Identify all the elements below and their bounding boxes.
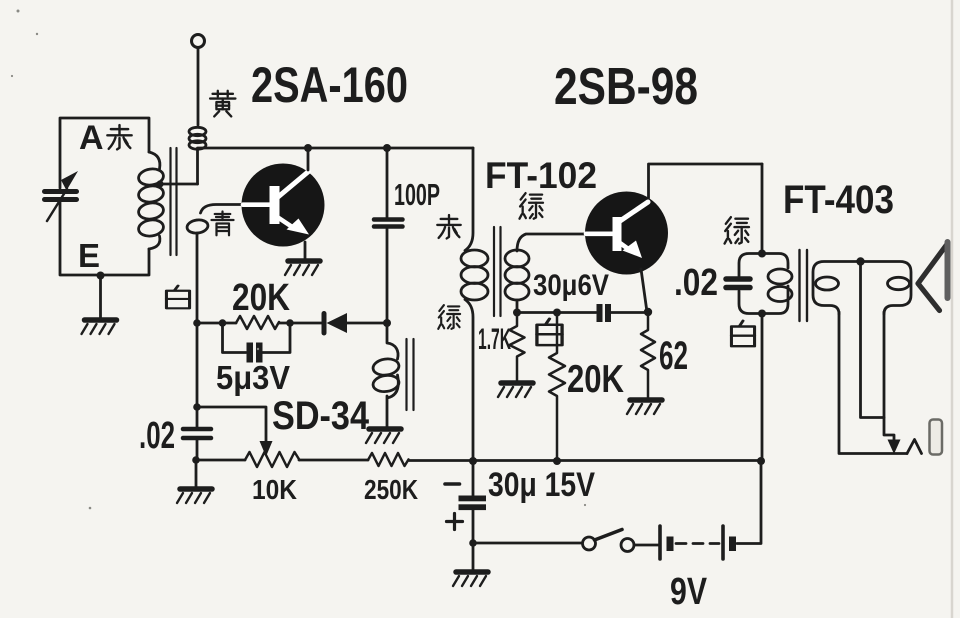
svg-text:2SA-160: 2SA-160: [251, 57, 408, 113]
svg-text:1.7K: 1.7K: [478, 323, 511, 356]
wire FT102 secondary top to base: [517, 234, 585, 251]
paper specks: [11, 10, 586, 510]
resistor 250K: [368, 453, 409, 466]
node wiper: [193, 403, 201, 411]
wire sec right down: [884, 312, 894, 441]
plug body: [930, 420, 943, 455]
svg-text:.02: .02: [139, 415, 175, 457]
wire bus: [196, 459, 245, 462]
resistor 62: [641, 312, 655, 399]
wire top rail: [198, 147, 474, 150]
capacitor 30u15V: [459, 496, 487, 502]
capacitor .02 stage1: [183, 427, 211, 432]
wire 100P bottom: [386, 229, 389, 323]
label kanji red FT102: [437, 215, 460, 238]
svg-text:5μ3V: 5μ3V: [216, 359, 290, 396]
wire Q2 emitter: [641, 269, 647, 312]
wire secondary base coil: [201, 205, 243, 214]
wire bias left: [197, 322, 236, 325]
ground 62: [627, 400, 662, 414]
svg-text:10K: 10K: [252, 474, 297, 505]
core osc: [407, 339, 414, 410]
diode SD-34: [322, 314, 327, 334]
wire Q1 collector: [307, 148, 310, 170]
wire FT403 primary top feed: [761, 164, 764, 254]
antenna terminal: [192, 35, 205, 48]
svg-text:SD-34: SD-34: [272, 394, 370, 438]
label kanji green FT102 primary: [438, 305, 460, 329]
label kanji white FT102: [537, 319, 562, 345]
svg-text:2SB-98: 2SB-98: [554, 58, 698, 116]
svg-text:FT-403: FT-403: [783, 178, 894, 222]
label kanji green FT102 secondary: [519, 193, 542, 219]
wire white down: [196, 233, 199, 323]
switch S1: [583, 537, 596, 550]
wire tap horizontal: [160, 183, 198, 186]
svg-text:A: A: [79, 119, 104, 157]
capacitor 5u3V branch: [223, 323, 247, 353]
earphone: [918, 244, 948, 311]
svg-text:30μ6V: 30μ6V: [533, 269, 609, 302]
coil osc loops: [372, 357, 400, 376]
node FT403 top: [758, 250, 766, 258]
node white/bias: [193, 319, 201, 327]
plus label: [447, 514, 463, 530]
wire FT403 bottom down: [761, 314, 764, 461]
svg-text:62: 62: [659, 334, 688, 378]
wire osc top: [387, 323, 398, 359]
coil secondary blue: [186, 219, 209, 235]
antenna box L1: [60, 118, 149, 188]
battery B1: [658, 526, 662, 559]
node battery left: [469, 539, 477, 547]
plug notch: [907, 440, 922, 454]
winding FT403 primary: [739, 254, 762, 277]
coil yellow-tap choke: [189, 127, 206, 135]
node diode right: [383, 319, 391, 327]
capacitor .02 stage2: [726, 276, 750, 282]
label kanji white stage1: [166, 286, 189, 309]
wire 100P top: [386, 148, 389, 217]
node bus ft102: [469, 457, 477, 465]
ground osc: [366, 429, 401, 443]
node 20k2 top: [553, 309, 561, 317]
variable capacitor VC1: [45, 189, 77, 194]
label kanji red A: [107, 125, 131, 149]
wire osc bottom: [387, 375, 398, 427]
label kanji yellow: [210, 91, 235, 117]
core FT403: [800, 250, 808, 321]
wire box bottom to ground: [99, 275, 102, 318]
core lines L1: [171, 148, 177, 255]
node 100P top: [383, 144, 391, 152]
node 20K right: [286, 319, 294, 327]
wire Q1 emitter: [304, 242, 307, 260]
label kanji white FT403: [731, 321, 754, 346]
wire wiper: [197, 407, 266, 442]
transistor Q1 body: [242, 164, 325, 247]
coil FT102 primary: [461, 250, 488, 267]
winding FT403 secondary: [813, 262, 911, 315]
label kanji green FT403: [725, 217, 749, 243]
ground bus left: [177, 489, 212, 503]
scan artifact right edge: [951, 0, 954, 618]
potentiometer 10K: [245, 452, 300, 467]
ground 1.7K: [498, 383, 533, 397]
arrow to plug: [888, 440, 901, 455]
wire left vertical: [196, 323, 199, 427]
node box bottom: [97, 272, 105, 280]
transistor Q2 body: [585, 192, 668, 275]
node emitter2: [644, 308, 652, 316]
resistor 20K horizontal: [236, 316, 279, 329]
svg-text:FT-102: FT-102: [485, 155, 597, 196]
svg-text:30μ 15V: 30μ 15V: [488, 466, 595, 504]
svg-text:100P: 100P: [394, 177, 440, 212]
wire bias2: [517, 311, 596, 314]
node bus 20k2: [553, 457, 561, 465]
node FT403 bottom: [758, 310, 766, 318]
svg-text:20K: 20K: [232, 277, 290, 319]
wire to ground: [195, 460, 198, 487]
wire FT102 primary top: [465, 148, 473, 251]
ground battery: [453, 572, 488, 586]
svg-text:.02: .02: [674, 262, 718, 304]
ground: [82, 320, 117, 334]
coil L1 loops: [138, 167, 165, 186]
label kanji blue: [212, 212, 234, 236]
wire sec tap down: [861, 262, 885, 418]
node tap dot: [156, 180, 163, 187]
wire Q2 collector: [649, 164, 763, 198]
node bus left: [192, 456, 200, 464]
svg-text:20K: 20K: [567, 358, 624, 401]
wire antenna down: [197, 48, 200, 125]
node sec bottom: [513, 309, 521, 317]
minus label: [445, 482, 460, 486]
capacitor 100P plates: [374, 217, 403, 222]
node FT403 sec tap: [856, 257, 864, 265]
capacitor 30u6V: [597, 304, 603, 322]
ground Q1 emitter: [285, 261, 320, 275]
wire bus mid: [299, 459, 368, 462]
wire bus right: [409, 459, 761, 462]
resistor 1.7K: [510, 313, 525, 383]
core FT102: [494, 227, 501, 316]
wire FT102 secondary bottom: [516, 300, 519, 313]
wire FT102 primary bottom: [465, 300, 473, 461]
node Q1 collector: [304, 144, 312, 152]
resistor 20K vertical: [549, 313, 565, 461]
wire switch: [473, 542, 582, 545]
wire 20K to diode: [279, 322, 323, 325]
svg-text:250K: 250K: [364, 474, 418, 505]
wire antenna to tap: [196, 149, 199, 184]
node bus right: [757, 457, 765, 465]
svg-text:9V: 9V: [670, 571, 708, 613]
coil FT102 secondary: [505, 250, 529, 267]
wire sec left down: [839, 312, 907, 454]
svg-text:E: E: [78, 237, 100, 274]
